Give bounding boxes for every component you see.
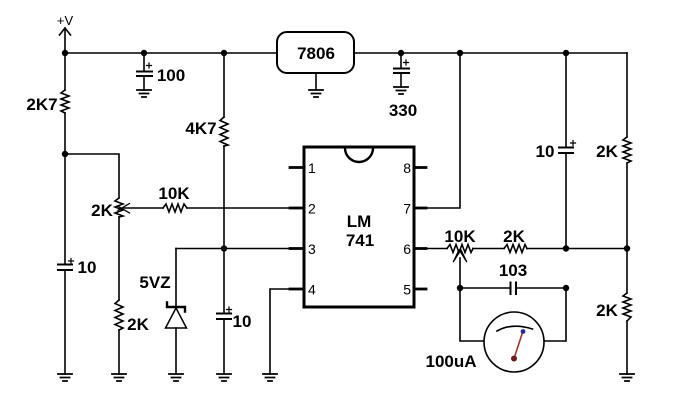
- svg-text:5: 5: [403, 282, 411, 298]
- node +V supply symbol: [60, 28, 71, 53]
- node junction dot 103 left: [457, 285, 463, 291]
- ground zener column: [169, 374, 183, 381]
- wire cap to ground mid: [223, 319, 225, 374]
- node junction dot 100uF cap: [141, 50, 147, 56]
- svg-text:8: 8: [403, 160, 411, 176]
- pin 2 stub: [290, 207, 303, 210]
- label LM 741: [346, 212, 374, 250]
- svg-text:330: 330: [389, 101, 417, 120]
- node junction dot left divider: [62, 151, 68, 157]
- svg-text:1: 1: [308, 160, 316, 176]
- capacitor C3 100uF: [137, 63, 152, 76]
- svg-text:2K: 2K: [596, 142, 618, 161]
- wire pot bottom to 2K: [118, 217, 120, 300]
- capacitor C6 10uF right: [559, 141, 576, 154]
- wire 2K top right bottom: [626, 163, 628, 293]
- svg-text:10K: 10K: [158, 184, 190, 203]
- resistor R6 2K top right: [623, 137, 631, 163]
- svg-text:7: 7: [403, 201, 411, 217]
- node junction dot feedback column: [563, 245, 569, 251]
- capacitor C5 103: [511, 283, 517, 295]
- wire 4K7 top: [223, 53, 225, 117]
- wire zener top: [175, 249, 177, 308]
- wire 100uF to ground: [143, 76, 145, 90]
- wire pin7 to rail: [426, 53, 460, 208]
- svg-text:100uA: 100uA: [425, 352, 476, 371]
- svg-text:10K: 10K: [444, 227, 476, 246]
- ground 330: [394, 87, 408, 94]
- resistor R7 2K bottom right: [623, 293, 631, 321]
- wire top rail left: [65, 52, 277, 54]
- op-amp U1 LM741 body: [304, 147, 414, 307]
- wire pot to 2K: [473, 248, 504, 250]
- wire pin6 to pot: [426, 248, 447, 250]
- node junction dot 103 right: [563, 285, 569, 291]
- capacitor C4 330uF: [394, 60, 409, 73]
- resistor R5 2K: [504, 245, 527, 253]
- svg-text:10: 10: [536, 142, 555, 161]
- op-amp notch: [345, 148, 373, 162]
- svg-text:+V: +V: [57, 13, 74, 28]
- svg-text:103: 103: [499, 261, 527, 280]
- zener diode D1 5VZ: [166, 303, 187, 329]
- svg-text:100: 100: [157, 66, 185, 85]
- svg-text:LM: LM: [347, 212, 372, 231]
- wire pin3 line: [176, 248, 290, 250]
- pin 3 stub: [290, 247, 303, 250]
- node junction dot right column: [624, 245, 630, 251]
- node junction dot 10uF right branch: [563, 50, 569, 56]
- meter M1 100uA: [484, 312, 544, 372]
- wire pin4 to ground: [270, 289, 291, 374]
- pin numbers left: [308, 160, 316, 298]
- wire 2K to ground: [118, 330, 120, 374]
- wire 2K7 top: [64, 53, 66, 90]
- wire 100uF cap top: [143, 53, 145, 71]
- pin 8 stub: [415, 166, 426, 169]
- potentiometer RV2 10K: [447, 245, 473, 289]
- pin 7 stub: [415, 207, 426, 210]
- svg-text:3: 3: [308, 241, 316, 257]
- wire 10uF right top: [565, 53, 567, 147]
- svg-text:10: 10: [78, 258, 97, 277]
- wire 2K7 bottom to node: [64, 113, 66, 154]
- node junction dot 4K7 branch: [221, 50, 227, 56]
- ground right column: [620, 374, 634, 381]
- resistor R3 2K: [115, 300, 123, 330]
- svg-text:741: 741: [346, 231, 374, 250]
- capacitor C1 10uF left: [58, 259, 74, 271]
- wire zener to ground: [175, 328, 177, 374]
- svg-text:2K7: 2K7: [26, 95, 57, 114]
- resistor R4 4K7: [220, 117, 228, 146]
- svg-text:2: 2: [308, 201, 316, 217]
- wire 2K to right columns: [527, 248, 627, 250]
- wire 10K to pin2: [187, 207, 290, 209]
- svg-text:2K: 2K: [91, 201, 113, 220]
- svg-text:4K7: 4K7: [185, 119, 216, 138]
- wire 7806 ground stub: [315, 73, 317, 90]
- pin numbers right: [403, 160, 411, 298]
- wire 330 cap top: [400, 53, 402, 68]
- node junction dot pin7 branch: [457, 50, 463, 56]
- svg-text:5VZ: 5VZ: [139, 273, 170, 292]
- resistor R2 10K: [163, 204, 187, 212]
- potentiometer RV1 2K: [115, 198, 130, 217]
- wire cap to ground left: [64, 270, 66, 374]
- wire 2K to ground right: [626, 321, 628, 374]
- pin 4 stub: [290, 288, 303, 291]
- regulator U2 7806 box: [277, 32, 354, 73]
- svg-text:2K: 2K: [503, 227, 525, 246]
- node junction dot 330 cap: [398, 50, 404, 56]
- wire meter right: [544, 288, 566, 341]
- svg-text:2K: 2K: [596, 301, 618, 320]
- pin 1 stub: [290, 166, 303, 169]
- ground left column: [58, 374, 72, 381]
- wire divider node to pot: [65, 154, 119, 198]
- wire pot wiper to 10K: [124, 207, 163, 209]
- node junction dot at +V rail: [62, 50, 68, 56]
- ground pot column: [112, 374, 126, 381]
- wire 4K7 to pin3 line: [223, 146, 225, 249]
- wire meter left: [460, 288, 484, 341]
- ground 7806: [309, 90, 323, 97]
- svg-text:10: 10: [233, 312, 252, 331]
- wire node to 10uF cap left: [64, 154, 66, 264]
- capacitor C2 10uF mid: [217, 307, 232, 319]
- svg-text:6: 6: [403, 241, 411, 257]
- svg-text:7806: 7806: [297, 44, 335, 63]
- node junction dot pin3 line: [221, 245, 227, 251]
- svg-text:4: 4: [308, 282, 316, 298]
- pin 5 stub: [415, 288, 426, 291]
- ground 100uF: [137, 90, 151, 97]
- wire 103 line: [460, 287, 566, 289]
- resistor R1 2K7: [61, 90, 69, 113]
- wire 330 to ground: [400, 73, 402, 87]
- wire 10uF right bottom: [565, 153, 567, 249]
- ground pin4 column: [263, 374, 277, 381]
- wire to 10uF mid cap: [223, 249, 225, 314]
- ground 4K7 column: [217, 374, 231, 381]
- wire top rail right: [354, 52, 627, 54]
- pin 6 stub: [415, 247, 426, 250]
- svg-text:2K: 2K: [127, 315, 149, 334]
- wire 2K top right: [626, 53, 628, 137]
